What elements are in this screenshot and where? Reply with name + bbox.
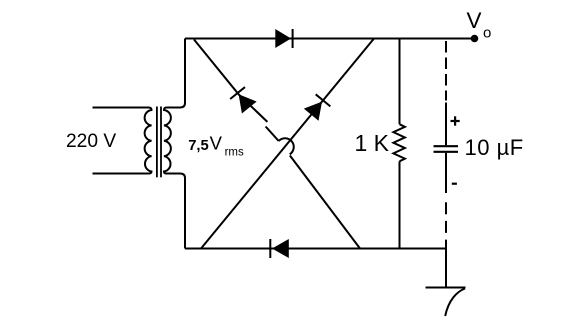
wire resistor branch bottom xyxy=(399,161,401,248)
diode D4 (on BL-TR diagonal, pointing up-right) xyxy=(304,94,330,120)
capacitor plus polarity xyxy=(451,116,460,125)
svg-text:220 V: 220 V xyxy=(66,131,116,152)
diode D2 bottom xyxy=(270,239,289,258)
resistor R1 1K zigzag xyxy=(393,124,405,161)
bridge diagonal BL-TR xyxy=(201,39,374,249)
transformer T1 core xyxy=(157,107,161,178)
diode D3 (on TL-BR diagonal, pointing up-left) xyxy=(230,87,256,113)
node Vo dot xyxy=(471,35,479,43)
ground bar xyxy=(426,287,466,289)
wire capacitor branch solid bottom xyxy=(445,153,447,193)
crossover hop xyxy=(279,138,294,154)
bridge diagonal TL-BR upper segment xyxy=(194,40,267,122)
wire capacitor branch solid top xyxy=(445,103,447,146)
bridge diagonal TL-BR lower segment xyxy=(290,156,360,249)
wire top rail xyxy=(185,38,475,40)
capacitor minus polarity xyxy=(452,183,457,185)
svg-text:1 K: 1 K xyxy=(355,130,390,156)
svg-text:V: V xyxy=(210,133,223,154)
svg-text:10 µF: 10 µF xyxy=(465,135,524,160)
svg-text:7,5: 7,5 xyxy=(188,138,209,154)
wire capacitor branch dashed bottom xyxy=(445,202,447,248)
transformer T1 secondary winding + leads xyxy=(164,39,185,249)
svg-text:Vo: Vo xyxy=(467,8,492,42)
wire resistor branch top xyxy=(399,39,401,125)
bridge diagonal TL-BR middle segment xyxy=(266,127,279,142)
transformer T1 primary winding xyxy=(93,108,152,174)
svg-text:rms: rms xyxy=(225,147,244,159)
diode D1 top xyxy=(275,29,292,48)
capacitor C1 plates xyxy=(434,146,459,152)
wire capacitor branch dashed top xyxy=(445,41,447,101)
wire bottom rail xyxy=(185,248,446,250)
ground stem xyxy=(445,249,447,288)
ground curve xyxy=(445,289,465,317)
